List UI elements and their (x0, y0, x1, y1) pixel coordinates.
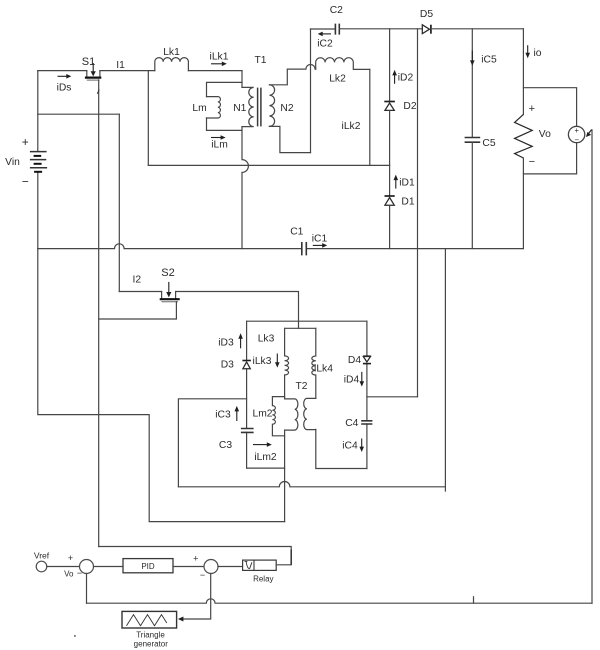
svg-text:S2: S2 (161, 267, 174, 279)
label iLm2 with arrow (253, 442, 277, 463)
summing junction 2 (193, 553, 218, 579)
label iD3 with arrow (218, 333, 243, 348)
svg-text:+: + (193, 553, 198, 563)
svg-text:D2: D2 (403, 101, 416, 112)
label iLm with arrow (211, 135, 228, 150)
svg-text:Lk2: Lk2 (329, 74, 346, 85)
svg-text:Vref: Vref (34, 551, 50, 561)
label iD4 with arrow (344, 372, 364, 387)
load resistor Vo branch (515, 29, 551, 249)
voltage source Vin (5, 71, 47, 249)
label iC5 with arrow (470, 51, 497, 66)
wire Vref to summer 1 (47, 566, 80, 568)
wire T2 left column down to bottom link (284, 430, 286, 522)
label iLk3 with arrow (253, 354, 280, 368)
inductor Lk3 (258, 328, 289, 399)
wire T2 outer top rail (247, 320, 367, 322)
svg-text:Vo: Vo (539, 129, 551, 140)
wire C3 bottom link (247, 467, 285, 469)
label iD2 with arrow (392, 70, 413, 84)
diode D3 (221, 360, 251, 371)
svg-text:Lm2: Lm2 (252, 408, 272, 419)
svg-text:iD3: iD3 (218, 337, 234, 348)
capacitor C5 branch (465, 29, 496, 249)
wire summer2 lower leg to triangle generator (184, 574, 211, 620)
transformer T1 secondary N2 (254, 55, 293, 126)
svg-text:iC3: iC3 (215, 410, 231, 421)
svg-text:I1: I1 (116, 60, 125, 71)
label iC2 with arrow (317, 32, 333, 50)
wire Vin+ branch to I2 leg (38, 113, 120, 115)
svg-text:T1: T1 (254, 55, 266, 66)
wire N1 top feed (241, 71, 243, 88)
wire S2 drain to T2 center (176, 292, 299, 329)
wire D4/C4 right branch vertical (366, 321, 368, 468)
svg-text:io: io (533, 48, 541, 59)
wire C2 left vertical (310, 29, 312, 153)
svg-text:iLk4: iLk4 (314, 364, 333, 375)
wire output sense loop top (523, 88, 576, 127)
svg-text:iC1: iC1 (312, 234, 328, 245)
wire D3/C3 left branch vertical (246, 321, 248, 468)
wire PID to summer 2 (173, 566, 204, 568)
label iDs with arrow (57, 74, 72, 94)
wire summer1 feedback drop (86, 574, 88, 604)
svg-text:+: + (574, 126, 579, 135)
svg-text:iC5: iC5 (481, 55, 497, 66)
wire I2 to S2 (119, 291, 161, 293)
svg-text:iDs: iDs (57, 83, 72, 94)
stray dot mark (74, 635, 76, 637)
wire N2 bottom to C2 leg (269, 126, 310, 152)
wire Lk2 right leg (369, 69, 371, 165)
svg-text:C2: C2 (330, 5, 343, 16)
wire I2 vertical leg (118, 114, 120, 291)
wire feedback rail y603 with hop over summer2 leg (87, 599, 593, 603)
wire Vin- return to lower loop (38, 249, 285, 522)
inductor Lk2 (316, 58, 370, 85)
svg-text:Relay: Relay (253, 575, 273, 584)
svg-text:Lm: Lm (192, 103, 206, 114)
summing junction 1 (64, 553, 93, 578)
wire right leg from C1 rail down to rail B (444, 249, 446, 491)
svg-text:iLk1: iLk1 (210, 52, 229, 63)
PID block (123, 559, 173, 573)
svg-text:C4: C4 (345, 418, 358, 429)
capacitor C3 (219, 429, 254, 452)
svg-text:−: − (574, 136, 579, 145)
diode D4 (348, 355, 371, 366)
transformer T1 primary N1 (233, 87, 253, 126)
wire T2 inner top rail (285, 327, 316, 329)
svg-text:C3: C3 (219, 440, 232, 451)
wire N2 top to Lk2 with hop over C2 leg (269, 64, 315, 84)
svg-text:PID: PID (141, 562, 155, 571)
wire Lk1 to T1 (188, 70, 242, 72)
svg-text:Vo: Vo (64, 570, 74, 579)
wire return rail y165 (148, 164, 389, 166)
svg-text:iLk2: iLk2 (342, 121, 361, 132)
wire link to D4 branch (367, 396, 418, 398)
transformer T1 core (258, 88, 261, 127)
voltage measurement source circle (568, 126, 584, 145)
svg-text:D4: D4 (348, 355, 361, 366)
Relay block (243, 560, 277, 583)
svg-text:C5: C5 (482, 138, 495, 149)
junction tick on feedback rail (473, 597, 475, 603)
diode D1 (385, 196, 415, 249)
label iC1 with arrow (312, 234, 328, 248)
svg-text:Triangle: Triangle (136, 631, 165, 640)
svg-text:N1: N1 (233, 103, 246, 114)
wire summer1 to PID (94, 566, 124, 568)
svg-text:−: − (22, 174, 29, 188)
svg-text:iD1: iD1 (399, 178, 415, 189)
wire S1 drain vertical (long left drop) (97, 80, 99, 547)
diode D2 (384, 29, 417, 196)
svg-text:S1: S1 (82, 56, 95, 68)
svg-text:−: − (529, 156, 535, 168)
wire S1 to Lk1 (100, 70, 155, 72)
svg-text:generator: generator (134, 640, 169, 649)
svg-text:T2: T2 (295, 381, 307, 392)
svg-text:C1: C1 (290, 227, 303, 238)
wire N1 bottom leg with hop over y165 (242, 127, 248, 249)
label iC3 with arrow (215, 406, 239, 421)
wire output sense loop bottom (523, 143, 576, 174)
inductor Lm parallel loop (192, 82, 242, 130)
Triangle generator block (122, 611, 177, 648)
svg-text:D3: D3 (221, 360, 234, 371)
wire lower rail B with hop (178, 482, 445, 487)
label io with arrow (525, 45, 541, 59)
wire summer2 to relay (218, 566, 243, 568)
svg-text:−: − (77, 568, 82, 578)
label iD1 with arrow (394, 175, 415, 189)
svg-text:−: − (200, 570, 205, 580)
svg-text:N2: N2 (280, 103, 293, 114)
svg-text:iLm2: iLm2 (254, 452, 277, 463)
wire T2 right column bottom to C4 (316, 429, 367, 468)
svg-text:Lk3: Lk3 (258, 334, 275, 345)
measurement tap arrow (586, 130, 592, 137)
transformer T2 right winding (304, 398, 316, 429)
label iLk1 with arrow (210, 52, 229, 67)
svg-text:D5: D5 (420, 9, 433, 20)
wire feedback right riser (591, 130, 593, 603)
wire relay output up and left to gate rail (99, 547, 292, 565)
switch S2 (MOSFET) (160, 267, 180, 302)
capacitor C2 (311, 5, 423, 35)
wire top rail from Vin+ to S1 (38, 70, 87, 72)
capacitor C4 (345, 418, 372, 429)
switch S1 (MOSFET) (82, 56, 102, 80)
wire C3 top link from x178 leg (178, 399, 246, 487)
wire branch down at x148 (147, 71, 149, 166)
svg-text:Vin: Vin (5, 157, 20, 168)
diode D5 (420, 9, 523, 34)
inductor Lk4 (312, 328, 333, 398)
svg-text:+: + (22, 135, 29, 149)
wire bottom rail y248 with hop over I2 leg (38, 244, 524, 249)
svg-text:iD4: iD4 (344, 375, 360, 386)
svg-text:+: + (529, 103, 535, 115)
svg-text:iC4: iC4 (342, 441, 358, 452)
svg-text:iLm: iLm (211, 140, 228, 151)
svg-text:+: + (68, 553, 73, 563)
svg-text:iD2: iD2 (398, 73, 414, 84)
source Vref circle (34, 551, 50, 572)
svg-text:Lk1: Lk1 (163, 47, 180, 58)
wire D5 anode drop x417 (417, 29, 419, 397)
svg-text:iC2: iC2 (317, 39, 333, 50)
inductor Lm2 parallel loop (252, 397, 284, 436)
capacitor C1 (290, 227, 306, 256)
svg-text:I2: I2 (133, 275, 142, 286)
transformer T2 left winding (285, 381, 308, 430)
svg-text:D1: D1 (401, 197, 414, 208)
svg-text:iLk3: iLk3 (253, 356, 272, 367)
wire S2 source to left drop (99, 302, 177, 319)
inductor Lk1 (155, 47, 189, 71)
label iC4 with arrow (342, 439, 364, 453)
